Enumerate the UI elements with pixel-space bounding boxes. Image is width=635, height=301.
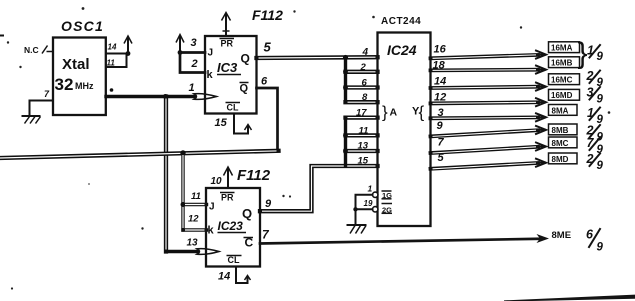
svg-text:7: 7 <box>438 137 445 149</box>
wire Q̄1 pin 6 down to 16M bus <box>257 76 278 151</box>
wire pin 2 stub <box>343 69 377 74</box>
svg-text:12: 12 <box>188 214 199 225</box>
svg-text:CL: CL <box>227 103 239 113</box>
VCC arrow at J/K of IC3 <box>176 35 184 55</box>
svg-text:k: k <box>207 69 214 81</box>
svg-text:6: 6 <box>261 76 268 88</box>
svg-text:3: 3 <box>191 37 197 49</box>
wire J pin 11 <box>183 191 207 205</box>
wire Q̄2 pin 7 8ME output <box>260 228 571 244</box>
wire 32MHz vertical to IC23 clock <box>164 97 168 252</box>
wire output 5 (8MD) <box>431 159 547 169</box>
wire 16MHz vertical to pins 2 6 8 <box>344 58 347 103</box>
svg-text:8: 8 <box>362 92 368 103</box>
net label 8MA <box>549 105 578 116</box>
VCC arrow pin 10 above IC23 <box>211 167 233 188</box>
svg-text:16: 16 <box>434 44 447 56</box>
wire output 7 (8MC) <box>431 143 547 154</box>
wire output 16 (16MA) <box>431 51 547 59</box>
svg-text:8MB: 8MB <box>552 126 569 135</box>
edge tick top left <box>0 35 3 37</box>
svg-text:14: 14 <box>108 43 117 52</box>
svg-text:15: 15 <box>215 117 228 129</box>
net label 16MA <box>549 42 580 53</box>
svg-text:9: 9 <box>265 198 272 210</box>
wire J pin 3 <box>180 37 205 53</box>
svg-text:Q: Q <box>241 52 250 66</box>
pin 7 wire <box>30 89 54 116</box>
wire bus down to J/K of IC23 <box>181 153 184 230</box>
wire 16MHz bus to left edge <box>0 151 279 158</box>
svg-text:}: } <box>382 103 388 122</box>
net label 8MD <box>549 153 578 164</box>
svg-text:6: 6 <box>362 78 368 89</box>
sheet ref 1/9 <box>587 106 604 126</box>
ground at IC24 enables <box>348 225 367 234</box>
pin 11 wire <box>106 55 127 68</box>
svg-text:Xtal: Xtal <box>62 56 90 73</box>
wire pin 11 stub <box>343 133 377 138</box>
svg-text:Q: Q <box>242 206 252 221</box>
svg-text:11: 11 <box>359 126 369 137</box>
VCC arrow at OSC1 <box>124 36 132 56</box>
svg-text:4: 4 <box>362 47 369 58</box>
wire K pin 2 <box>180 53 205 73</box>
wire pin 8 stub <box>346 100 378 104</box>
svg-text:16MD: 16MD <box>551 91 573 100</box>
svg-text:k: k <box>208 225 215 237</box>
svg-text:{: { <box>419 103 425 122</box>
net label 16MB <box>549 57 580 68</box>
wire K pin 12 <box>183 214 207 231</box>
svg-text:8MD: 8MD <box>552 155 569 164</box>
svg-text:16MC: 16MC <box>551 76 573 85</box>
wire 8MHz vertical to pins 13 11 17 <box>344 118 347 166</box>
ground <box>23 116 41 124</box>
wire Q2 8MHz pin 9 to IC24 pin 15 <box>260 166 378 211</box>
clock arrowhead pin 13 <box>197 249 219 255</box>
svg-text:IC23: IC23 <box>218 219 244 233</box>
svg-text:IC24: IC24 <box>387 42 417 58</box>
svg-text:PR: PR <box>221 39 234 49</box>
wire output 9 (8MB) <box>431 126 547 136</box>
svg-text:5: 5 <box>264 40 272 55</box>
sheet ref 2/9 <box>586 152 604 172</box>
svg-text:14: 14 <box>434 76 446 88</box>
oscillator OSC1 box <box>53 18 106 115</box>
wire output 18 (16MB) <box>431 66 547 74</box>
svg-text:N.C: N.C <box>24 45 39 55</box>
wire pin 6 stub <box>343 85 377 90</box>
svg-text:32: 32 <box>55 75 74 94</box>
svg-text:16MB: 16MB <box>551 59 573 68</box>
sheet ref 2/9 <box>586 124 604 144</box>
clock arrowhead pin 1 <box>189 82 217 99</box>
wire pin 17 stub <box>346 115 378 119</box>
junction node at J <box>181 202 186 207</box>
svg-text:2: 2 <box>191 58 198 70</box>
wire pin 13 stub <box>343 149 377 154</box>
net label 16MC <box>549 74 580 85</box>
svg-text:A: A <box>390 107 398 119</box>
svg-text:9: 9 <box>597 242 604 254</box>
svg-text:Q: Q <box>240 83 249 95</box>
svg-text:11: 11 <box>191 191 201 202</box>
svg-text:ACT244: ACT244 <box>381 16 421 27</box>
svg-text:15: 15 <box>358 156 369 167</box>
pin 1 N.C <box>24 45 53 55</box>
flip-flop U=IC3 F112 box <box>205 7 283 114</box>
svg-text:8ME: 8ME <box>552 230 572 241</box>
svg-text:MHz: MHz <box>75 81 94 91</box>
junction node on bus <box>180 150 185 155</box>
junction node 32MHz <box>163 94 168 99</box>
svg-text:1: 1 <box>189 82 195 94</box>
buffer IC24 ACT244 box <box>378 16 431 226</box>
svg-text:J: J <box>208 48 214 59</box>
border line bottom right <box>504 295 635 301</box>
sheet ref 2/9 <box>586 69 604 89</box>
svg-text:IC3: IC3 <box>217 60 238 75</box>
svg-text:J: J <box>209 202 215 213</box>
wire 32MHz from OSC1 to IC3 clock <box>106 95 197 98</box>
pin 8 <box>110 88 114 92</box>
enable pin 1 bubble <box>368 184 393 200</box>
svg-text:10: 10 <box>211 176 223 187</box>
net label 8MB <box>549 124 578 135</box>
svg-text:13: 13 <box>358 141 369 152</box>
svg-text:2: 2 <box>360 62 367 73</box>
wire output 14 (16MC) <box>431 83 547 91</box>
sheet ref 7/9 <box>587 136 604 156</box>
net label 16MD <box>549 89 580 100</box>
flip-flop U=IC23 F112 box <box>206 167 271 267</box>
svg-text:19: 19 <box>364 199 373 208</box>
sheet ref 3/9 <box>587 86 604 106</box>
net label 8MC <box>549 137 578 148</box>
wire output 12 (16MD) <box>431 98 547 106</box>
wire clock into IC23 <box>166 250 200 253</box>
svg-text:13: 13 <box>187 238 199 249</box>
svg-text:9: 9 <box>597 160 604 172</box>
svg-text:16MA: 16MA <box>551 44 573 53</box>
VCC arrow above IC3 (PR) <box>222 13 231 37</box>
svg-text:14: 14 <box>218 271 230 283</box>
svg-text:OSC1: OSC1 <box>61 18 104 34</box>
pin 14 wire and VCC arrow <box>218 267 251 284</box>
svg-text:F112: F112 <box>252 7 283 23</box>
svg-text:F112: F112 <box>237 167 271 184</box>
svg-text:CL: CL <box>228 255 240 265</box>
net label 6/9 <box>586 228 604 254</box>
output pin labels IC24 <box>433 44 447 165</box>
svg-text:8MC: 8MC <box>552 139 569 148</box>
svg-text:PR: PR <box>221 193 234 203</box>
enable pin 19 bubble <box>364 199 393 214</box>
wire Q1 16MHz pin 5 to IC24 pin 4 <box>257 40 378 59</box>
svg-text:1: 1 <box>368 184 373 194</box>
junction node 16MHz <box>343 55 348 60</box>
pin 15 wire and VCC arrow <box>215 114 252 134</box>
svg-text:9: 9 <box>437 120 444 132</box>
svg-text:9: 9 <box>597 94 604 106</box>
svg-text:9: 9 <box>597 51 604 63</box>
enable wires to ground <box>353 195 372 225</box>
svg-text:17: 17 <box>356 108 367 119</box>
input pin labels IC24 <box>356 47 369 167</box>
wire output 3 (8MA) <box>431 113 547 121</box>
sheet ref 1/9 <box>587 44 604 64</box>
svg-text:8MA: 8MA <box>552 106 569 115</box>
pin 14 wire <box>106 43 128 54</box>
